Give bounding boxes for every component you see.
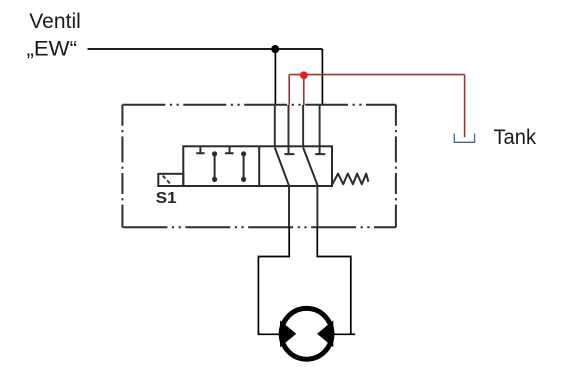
motor triangle right: [317, 320, 333, 347]
detent pin 2: [243, 154, 245, 180]
wire: red horizontal to tank: [289, 74, 464, 76]
wire: black vertical branch at x=275 down to subplate: [274, 49, 276, 105]
wire: red vertical at x=289 down to subplate: [288, 75, 290, 105]
subplate boundary top edge (dash-dot-dot): [122, 104, 396, 106]
detent pin 1: [214, 154, 216, 180]
junction dot (black): [271, 45, 279, 53]
work line B (gray, below valve): [316, 186, 318, 227]
flow path diagonal 2: [303, 148, 317, 186]
closed port T 2: [315, 146, 325, 154]
port line (gray) x=303: [302, 105, 304, 146]
solenoid diagonal: [163, 176, 172, 186]
detent T-port 1: [196, 146, 204, 153]
port line P (gray): [274, 105, 276, 146]
subplate boundary right edge (dash-dot): [395, 105, 397, 227]
svg-text:S1: S1: [156, 190, 177, 207]
subplate boundary bottom edge (dash-dot-dot): [122, 226, 396, 228]
junction dot (red): [300, 71, 308, 79]
motor triangle left: [280, 320, 296, 347]
wire: motor loop left: [258, 227, 289, 335]
wire: red vertical at x=304 down to subplate: [303, 75, 305, 105]
subplate boundary left edge (dash-dot): [121, 105, 123, 227]
work line A (gray, below valve): [288, 186, 290, 227]
flow path diagonal 1: [275, 148, 289, 186]
valve V1 body: [183, 146, 332, 186]
valve section divider: [258, 146, 260, 186]
port line (gray) x=288.5: [288, 105, 290, 146]
hydraulic motor M1 circle: [281, 308, 332, 359]
port line (gray) x=319.6: [319, 105, 321, 146]
svg-text:Tank: Tank: [494, 126, 537, 149]
return spring: [332, 174, 368, 185]
wire: black horizontal from "EW" label to valve: [88, 48, 323, 50]
solenoid S1 box: [158, 174, 183, 186]
closed port T 1: [284, 146, 294, 154]
svg-text:Ventil: Ventil: [29, 10, 81, 33]
wire: motor loop right: [317, 227, 355, 335]
tank symbol: [454, 134, 474, 143]
svg-text:„EW“: „EW“: [27, 38, 78, 61]
wire: black vertical at x=322 down to subplate: [321, 49, 323, 105]
detent T-port 2: [225, 146, 234, 153]
wire: red vertical drop to tank: [464, 75, 466, 138]
